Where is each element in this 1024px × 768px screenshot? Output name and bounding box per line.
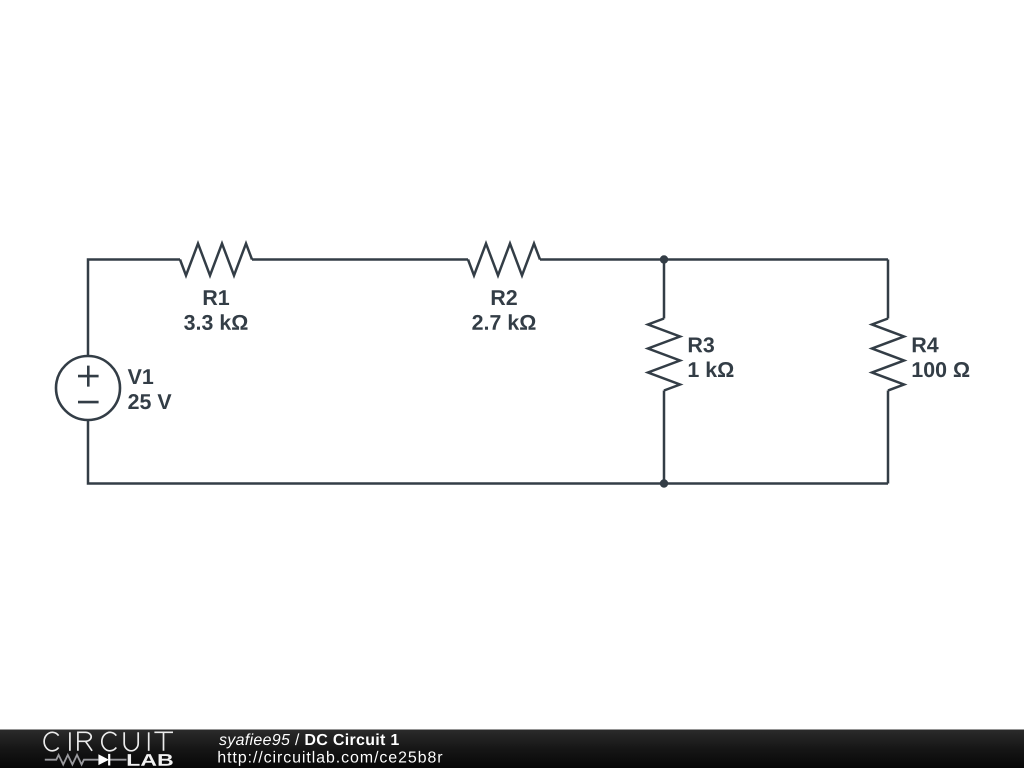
wire junction to R3 top — [663, 260, 666, 319]
wire bottom — [88, 420, 888, 484]
wire R3 to bottom — [663, 391, 666, 484]
wire left vertical and top-left corner — [88, 260, 180, 357]
V1 minus sign — [78, 401, 99, 404]
resistor R4 — [872, 319, 904, 391]
value R1 3.3 kOhm — [184, 314, 247, 330]
resistor R1 — [180, 244, 252, 276]
wire R1 to R2 — [252, 258, 468, 261]
resistor R2 — [468, 244, 540, 276]
logo diode bar — [108, 754, 110, 766]
value R2 2.7 kOhm — [472, 314, 535, 330]
logo letter C2 — [102, 732, 116, 751]
logo letter U — [124, 732, 138, 751]
logo letter I2 — [148, 732, 150, 751]
value R3 1 kOhm — [689, 361, 734, 377]
voltage source V1 circle — [56, 356, 120, 420]
logo diode triangle — [98, 754, 109, 765]
wire R2 to top-right corner — [540, 258, 888, 261]
value R4 100 Ohm — [913, 362, 970, 377]
label R4 — [913, 337, 939, 352]
label R2 — [492, 290, 517, 305]
logo letter R — [78, 732, 92, 751]
logo letter I1 — [69, 732, 71, 751]
footer bar — [0, 730, 1024, 768]
footer title: syafiee95 / DC Circuit 1 — [219, 733, 399, 748]
wire right vertical upper — [887, 260, 890, 319]
logo LAB text — [128, 754, 173, 766]
logo letter T — [154, 732, 173, 751]
node junction dot top — [660, 255, 668, 263]
resistor R3 — [648, 319, 680, 391]
node junction dot bottom — [660, 479, 668, 487]
label R1 — [204, 290, 229, 305]
footer url line circuitlab address — [218, 751, 442, 766]
value V1 25 V — [128, 394, 171, 409]
logo resistor squiggle wire — [45, 755, 127, 765]
wire right vertical lower — [887, 391, 890, 484]
label R3 — [689, 337, 714, 352]
V1 plus sign — [78, 366, 99, 387]
label V1 — [128, 369, 153, 384]
logo letter C1 — [44, 732, 58, 751]
